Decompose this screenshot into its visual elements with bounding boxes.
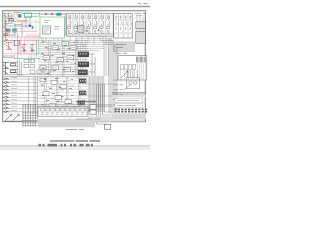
green wire stub: [34, 21, 40, 23]
relay K3 red coil: [22, 44, 27, 51]
switch S1: [4, 39, 8, 42]
pink junction box outline: [18, 40, 38, 53]
ECM internal block: [42, 26, 50, 34]
left area fine wire mesh: [3, 18, 36, 55]
net label dashes J1: [11, 78, 17, 111]
indicator dot red2: [98, 30, 99, 31]
crosshatch junction grid: [22, 104, 37, 127]
bus bar lower right: [112, 93, 146, 94]
junction box bottom: [104, 124, 110, 129]
component boxes centre lower: [40, 78, 72, 107]
fuse symbols row: [68, 14, 111, 32]
teal wire vertical: [14, 33, 40, 59]
coil comb terminals: [136, 57, 145, 63]
label text right of X1: [135, 14, 146, 16]
schematic sheet border: [2, 11, 145, 122]
relay K5 contact set: [3, 62, 17, 75]
wires below pink box: [29, 54, 34, 62]
component value dashes: [41, 44, 75, 70]
wire rows centre lower: [38, 78, 88, 110]
junction box JB1: [14, 41, 19, 46]
harness shade band right: [112, 113, 146, 119]
green ECM box: [40, 17, 64, 38]
contact marks row lower: [68, 33, 110, 35]
wire bundle vertical to bottom: [28, 77, 37, 119]
label above coil box: [116, 52, 127, 54]
orange wire: [13, 12, 28, 22]
footer divider: [0, 145, 150, 147]
fuse block pin ticks row: [68, 33, 112, 35]
capacitor bank C10 shaded: [136, 22, 146, 29]
wire bundle verticals centre: [49, 40, 77, 76]
trunk wires right of harness: [109, 38, 117, 114]
harness shade band mid: [88, 116, 112, 121]
terminal boxes row lower-left: [24, 59, 49, 73]
terminal row label A: [115, 98, 143, 102]
net name speckle lower: [40, 84, 86, 109]
ECM top wire stub: [39, 11, 41, 17]
indicator dot blue: [86, 30, 87, 31]
capacitor bank C11 shaded: [136, 31, 146, 43]
teal relay block A: [6, 29, 10, 32]
caption text: [66, 129, 84, 131]
wire rows centre upper: [38, 41, 88, 73]
ECM pin marks: [44, 21, 50, 23]
fuse block F10 row: [67, 13, 114, 36]
ignition coil box: [118, 56, 147, 80]
riser corner wires upper-right: [104, 43, 109, 77]
wire drops from fuse block: [70, 36, 113, 45]
terminal strip dark row: [114, 109, 147, 113]
harness shade band left: [38, 119, 95, 127]
teal tap on bus: [56, 13, 61, 16]
diode D1 blue: [23, 50, 25, 52]
cross wires over harness: [86, 84, 114, 106]
connector block CB1: [78, 52, 89, 76]
blue module M1: [29, 25, 31, 27]
red wire battery feed: [4, 20, 8, 40]
wires through pink box: [20, 40, 36, 53]
shaded strip below bus: [112, 95, 146, 97]
connector block CB2 dark: [78, 79, 87, 106]
green wire: [22, 13, 38, 16]
black wire mid-left links: [3, 40, 15, 58]
junction block X1: [114, 13, 133, 38]
wire bundle verticals centre lower: [45, 77, 80, 112]
riser wires left of fuse block: [65, 14, 66, 36]
pink harness shade: [26, 34, 40, 42]
bottom boxes near stairs: [90, 105, 96, 115]
shaded relay cavity: [78, 26, 84, 32]
nested corner wires: [96, 84, 111, 124]
relay K4 red coil: [30, 44, 35, 51]
wires under ECM: [42, 38, 62, 43]
page indicator text top right: [138, 3, 148, 5]
switch S2: [5, 114, 12, 121]
connector block pin dots: [79, 53, 86, 73]
coil contact row: [121, 64, 136, 69]
teal relay block B: [12, 29, 16, 32]
motor M2 assembly: [124, 70, 140, 90]
switch S3: [13, 114, 20, 121]
gray note band: [114, 42, 135, 51]
feeder rows below fuse block: [76, 39, 113, 76]
pink wire bus: [3, 32, 43, 54]
resistor R3: [10, 70, 15, 72]
X1 internal symbols: [115, 15, 132, 30]
toolbar caption text row: [50, 140, 100, 142]
right edge wire verticals: [137, 16, 145, 44]
terminal row label B: [115, 103, 143, 107]
fuse block internal columns: [73, 13, 106, 36]
bottom bus rows: [22, 105, 112, 107]
black wire top-left mesh: [3, 18, 33, 36]
resistor R1: [10, 19, 14, 21]
resistor R2: [10, 64, 15, 66]
fuse F1: [4, 34, 7, 36]
coil arrow: [121, 71, 128, 78]
coil secondary wires: [121, 62, 146, 79]
margin note text: [76, 118, 100, 120]
diode D2 blue: [31, 50, 33, 52]
dark label speckle lower: [41, 79, 76, 111]
net label rows right: [113, 80, 123, 105]
relay K2 red coil: [6, 43, 12, 50]
indicator dot red: [79, 30, 80, 31]
top wire bus: [38, 13, 114, 15]
footer background: [0, 146, 150, 150]
bottom terminal box: [38, 107, 88, 116]
bus tick marks: [68, 13, 112, 16]
sheet inner border line: [3, 12, 144, 121]
connector J1 pin column: [3, 78, 10, 113]
note text dashes: [116, 44, 126, 47]
inline component boxes centre upper: [40, 42, 76, 72]
relay K1 contact cluster: [3, 13, 22, 25]
teal junction box: [18, 14, 21, 17]
toolbar divider line: [0, 6, 150, 8]
main bus horizontal: [3, 75, 89, 77]
ground bus with ticks: [76, 100, 96, 102]
toolbar icons row: [39, 144, 94, 147]
green connector C200: [25, 13, 32, 17]
dark label speckle upper: [41, 42, 76, 74]
CB2 pin dots: [79, 80, 86, 103]
wire rows from connector J1: [9, 79, 38, 112]
bus inline lamps: [45, 13, 53, 15]
switch feed wire: [4, 120, 22, 122]
wire bundle vertical left: [18, 60, 22, 76]
connector block stubs: [88, 54, 95, 76]
shaded harness column: [88, 76, 104, 112]
bottom terminal cells: [41, 108, 90, 114]
net name speckle upper: [40, 43, 86, 72]
harness column wires: [90, 76, 104, 112]
X1 pin dashes: [115, 17, 132, 33]
